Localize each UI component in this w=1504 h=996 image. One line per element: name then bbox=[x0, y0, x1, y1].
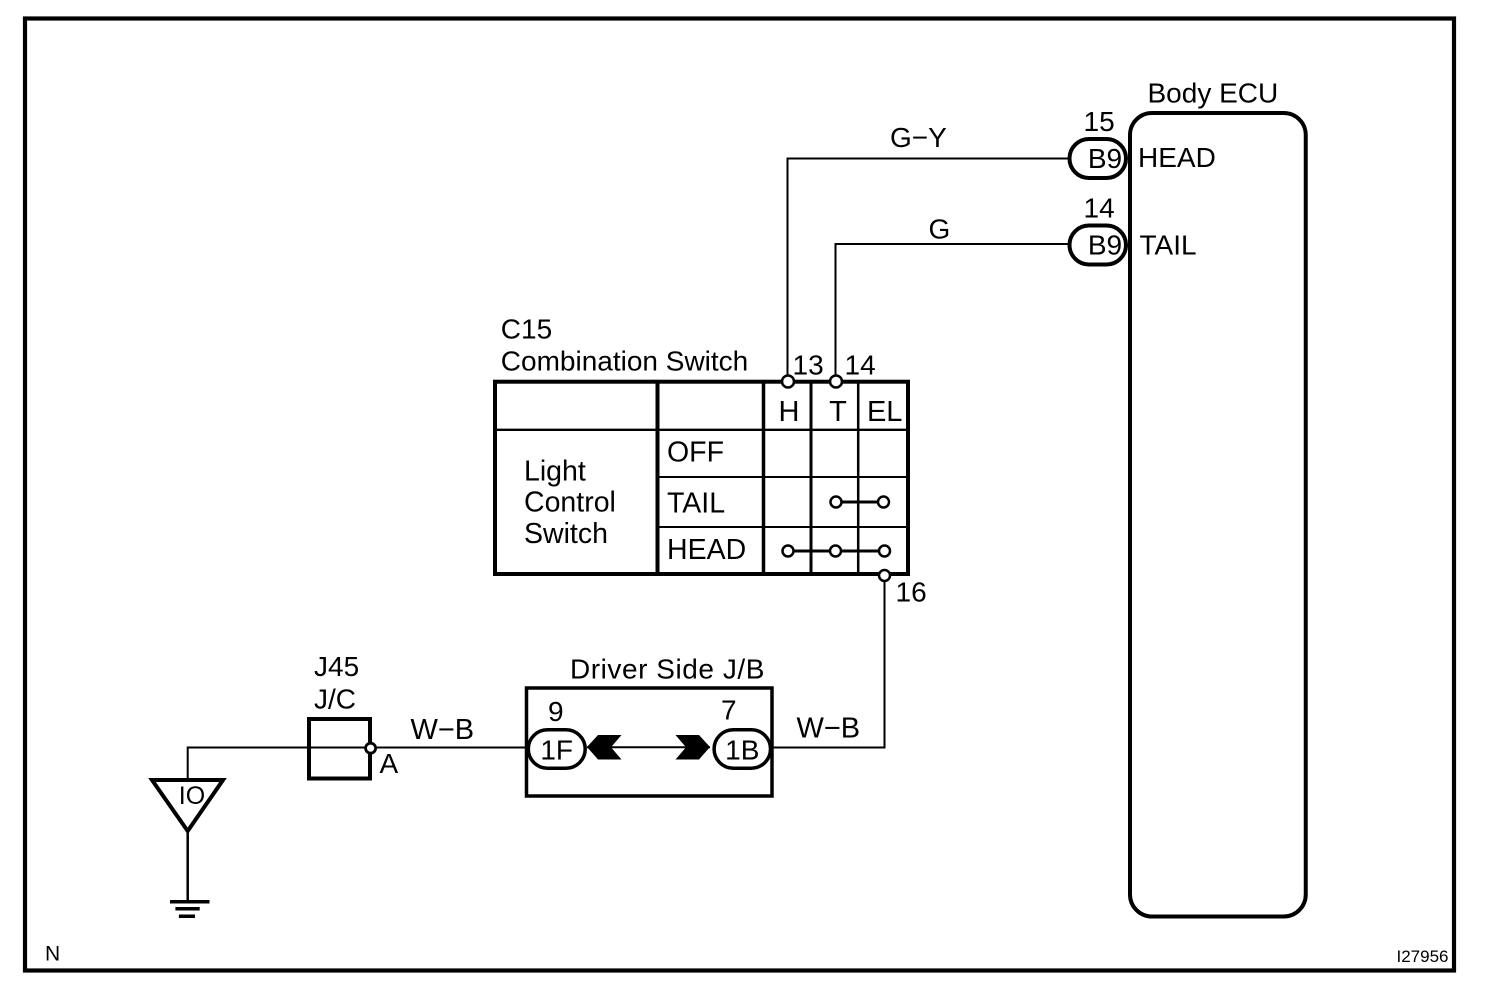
table divider H|T bbox=[810, 382, 813, 574]
svg-text:16: 16 bbox=[896, 577, 927, 608]
wire triangle to ground bbox=[186, 831, 189, 900]
right harness arrow bbox=[676, 735, 711, 760]
svg-text:B9: B9 bbox=[1088, 143, 1122, 174]
svg-text:14: 14 bbox=[1084, 193, 1115, 224]
svg-text:W−B: W−B bbox=[797, 713, 861, 745]
wire G from pin 14 to B9 pin 14 bbox=[836, 244, 1070, 378]
table row line TAIL|HEAD bbox=[658, 526, 909, 528]
wire G-Y from pin 13 to B9 pin 15 bbox=[788, 159, 1070, 379]
svg-text:Control: Control bbox=[524, 487, 616, 519]
table divider T|EL bbox=[857, 382, 860, 574]
svg-text:B9: B9 bbox=[1088, 230, 1122, 261]
svg-text:A: A bbox=[380, 748, 399, 779]
pin 16 terminal circle bbox=[879, 570, 890, 581]
svg-text:H: H bbox=[779, 396, 800, 428]
svg-text:1B: 1B bbox=[725, 735, 759, 766]
wire ground to J/B 1F bbox=[188, 748, 528, 781]
svg-text:1F: 1F bbox=[540, 735, 573, 766]
svg-text:TAIL: TAIL bbox=[1140, 230, 1197, 261]
wire between connector arrows bbox=[587, 746, 710, 748]
svg-text:OFF: OFF bbox=[667, 437, 724, 469]
ground symbol bbox=[170, 900, 210, 904]
table divider col2|H bbox=[762, 382, 766, 574]
svg-text:J45: J45 bbox=[314, 651, 359, 682]
connector 1B bbox=[714, 730, 770, 768]
svg-text:Driver Side J/B: Driver Side J/B bbox=[570, 654, 765, 685]
svg-text:Combination Switch: Combination Switch bbox=[501, 346, 748, 377]
left harness arrow bbox=[587, 735, 622, 760]
svg-text:J/C: J/C bbox=[314, 684, 356, 715]
connector 1F bbox=[528, 730, 585, 768]
pin 13 terminal circle bbox=[782, 376, 794, 388]
svg-text:T: T bbox=[829, 396, 847, 428]
connector B9 pin 15 bbox=[1070, 139, 1127, 178]
ground triangle IO bbox=[152, 780, 223, 831]
svg-text:Switch: Switch bbox=[524, 518, 608, 550]
table row line OFF|TAIL bbox=[658, 476, 909, 478]
connector B9 pin 14 bbox=[1070, 226, 1127, 265]
svg-text:HEAD: HEAD bbox=[1138, 142, 1216, 173]
svg-text:EL: EL bbox=[867, 396, 902, 428]
wire W-B from J/B 1B to pin 16 bbox=[773, 578, 885, 748]
HEAD row contact link bbox=[788, 550, 885, 553]
svg-text:Light: Light bbox=[524, 456, 586, 488]
svg-text:9: 9 bbox=[548, 696, 564, 727]
svg-text:7: 7 bbox=[721, 695, 737, 726]
svg-text:13: 13 bbox=[793, 350, 824, 381]
svg-text:Body ECU: Body ECU bbox=[1148, 78, 1279, 109]
pin 14 terminal circle bbox=[830, 376, 842, 388]
HEAD row contact circles bbox=[783, 546, 794, 557]
svg-text:IO: IO bbox=[179, 782, 205, 810]
svg-text:HEAD: HEAD bbox=[667, 534, 746, 566]
table divider col1|col2 bbox=[656, 382, 660, 574]
svg-text:15: 15 bbox=[1084, 106, 1115, 137]
svg-text:N: N bbox=[45, 943, 60, 966]
Body ECU box bbox=[1130, 113, 1306, 917]
svg-text:G−Y: G−Y bbox=[890, 122, 947, 153]
node A circle bbox=[366, 743, 376, 753]
TAIL row contact circles bbox=[831, 497, 842, 508]
svg-text:14: 14 bbox=[845, 350, 876, 381]
svg-text:C15: C15 bbox=[501, 314, 552, 345]
svg-text:W−B: W−B bbox=[411, 714, 475, 746]
svg-text:TAIL: TAIL bbox=[667, 488, 725, 520]
svg-text:G: G bbox=[929, 214, 951, 245]
Driver Side J/B box bbox=[527, 688, 773, 796]
svg-text:I27956: I27956 bbox=[1397, 947, 1449, 966]
J45 junction box bbox=[309, 719, 370, 779]
combination switch table outer bbox=[495, 382, 908, 574]
table header underline bbox=[495, 429, 908, 431]
TAIL row contact link bbox=[836, 501, 884, 504]
